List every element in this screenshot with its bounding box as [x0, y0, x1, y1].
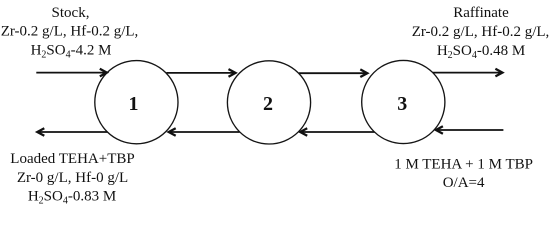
- svg-text:2: 2: [263, 93, 273, 115]
- svg-text:Raffinate: Raffinate: [453, 5, 509, 21]
- stage circle 2: [227, 61, 310, 144]
- wire: arrow stage 1 to stage 2 (top): [167, 69, 236, 77]
- svg-text:H2SO4-4.2 M: H2SO4-4.2 M: [31, 43, 112, 61]
- svg-text:Stock,: Stock,: [52, 5, 90, 21]
- wire: solvent feed arrow into stage 3 (bottom right): [436, 126, 504, 134]
- svg-text:H2SO4-0.83 M: H2SO4-0.83 M: [28, 189, 116, 205]
- stage circle 1: [95, 61, 178, 144]
- svg-text:Zr-0.2 g/L, Hf-0.2 g/L,: Zr-0.2 g/L, Hf-0.2 g/L,: [412, 24, 550, 40]
- node: raffinate label (top right): [412, 5, 550, 61]
- stage circle 3: [362, 60, 445, 143]
- svg-text:Zr-0 g/L, Hf-0 g/L: Zr-0 g/L, Hf-0 g/L: [17, 170, 128, 186]
- node: stock feed label (top left): [1, 5, 139, 61]
- svg-text:1: 1: [129, 93, 139, 115]
- wire: arrow stage 2 to stage 3 (top): [299, 69, 367, 77]
- node: solvent feed label (bottom right): [394, 157, 533, 191]
- wire: loaded organic arrow out of stage 1 (bottom left): [37, 128, 107, 136]
- svg-text:1 M TEHA + 1 M TBP: 1 M TEHA + 1 M TBP: [394, 157, 533, 173]
- wire: arrow stage 3 to stage 2 (bottom): [300, 128, 374, 136]
- svg-text:H2SO4-0.48 M: H2SO4-0.48 M: [437, 43, 525, 61]
- svg-text:Zr-0.2 g/L, Hf-0.2 g/L,: Zr-0.2 g/L, Hf-0.2 g/L,: [1, 24, 139, 40]
- svg-text:3: 3: [397, 93, 407, 115]
- wire: feed arrow into stage 1 (top left): [36, 69, 107, 77]
- wire: raffinate arrow out of stage 3 (top right): [433, 69, 503, 77]
- svg-text:Loaded TEHA+TBP: Loaded TEHA+TBP: [10, 151, 134, 167]
- wire: arrow stage 2 to stage 1 (bottom): [169, 128, 240, 136]
- svg-text:O/A=4: O/A=4: [443, 175, 485, 191]
- node: loaded organic label (bottom left): [10, 151, 134, 207]
